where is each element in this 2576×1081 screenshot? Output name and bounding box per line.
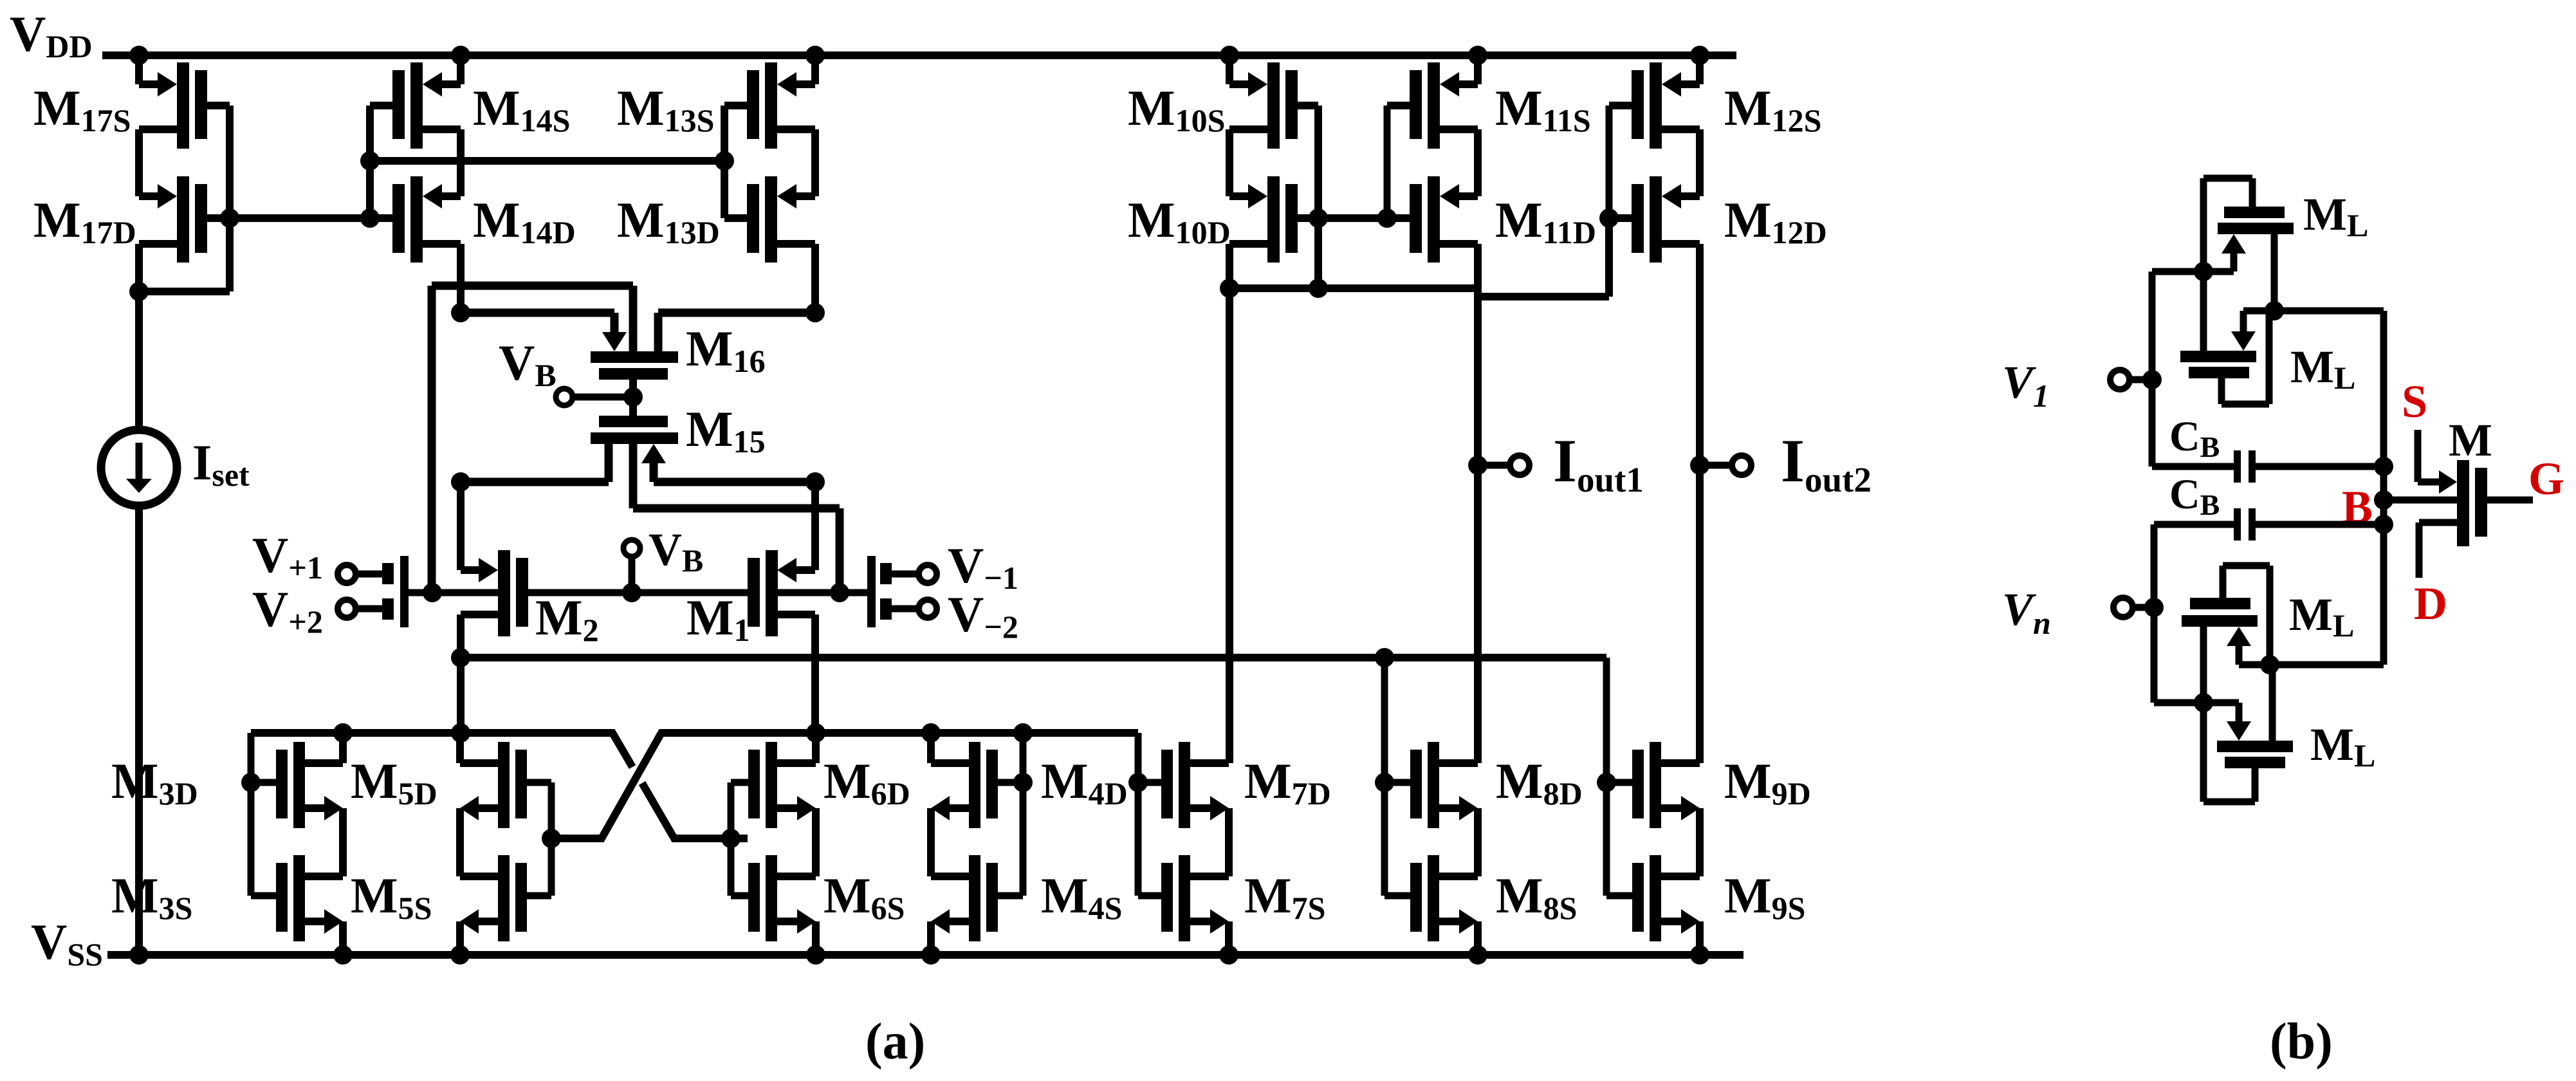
terminal V1: [2110, 370, 2130, 389]
wire M10 gate to drain bias: [1314, 218, 1322, 288]
wire M14 gate column: [366, 106, 374, 218]
wire M9D source to M9S drain: [1696, 808, 1704, 876]
wire M3 gate column: [248, 733, 255, 896]
wire M3D source to M3S drain: [339, 808, 347, 876]
transistor M11S: [1428, 62, 1440, 149]
transistor M14D: [410, 176, 423, 263]
wire ML2 gate loop: [2218, 378, 2225, 404]
terminal V-1: [919, 565, 937, 583]
node CB top B rail: [2374, 457, 2393, 476]
transistor M2: [498, 550, 510, 636]
node M7 VSS: [1219, 945, 1238, 965]
input gate bar M1: [867, 556, 876, 627]
terminal Iout1: [1510, 456, 1529, 475]
node M4 drain on P2: [921, 723, 941, 743]
svg-text:M: M: [2449, 414, 2492, 466]
wire P2 corner to M7 gates: [1135, 733, 1142, 896]
svg-text:G: G: [2528, 453, 2564, 504]
wire to current source: [135, 291, 143, 430]
transistor M13S: [765, 62, 777, 149]
wire bias right to M12 gates: [1478, 293, 1609, 300]
node M2 bulk - M16 branch: [423, 583, 442, 602]
transistor M: [2457, 460, 2469, 546]
wire M10D drain to M7D drain: [1226, 244, 1233, 763]
node M4 gate on P2: [1013, 723, 1033, 743]
transistor M9D and M9S: [1650, 742, 1661, 828]
svg-text:(a): (a): [865, 1013, 925, 1070]
node M5 VSS: [450, 945, 470, 965]
wire M13 gate column: [721, 106, 728, 218]
wire M1 source: [811, 482, 819, 570]
wire B rail: [2380, 311, 2387, 665]
wire M12 gate column: [1606, 106, 1613, 218]
wire M gate: [2487, 497, 2533, 504]
transistor ML1: [2224, 207, 2285, 218]
wire V1 up to ML1: [2149, 272, 2156, 380]
terminal V+1: [338, 565, 356, 583]
wire diagonal lower piece to M6 gate: [642, 783, 748, 838]
wire tail corner to M9 gates: [1603, 658, 1610, 896]
wire D2 to M16 plate: [658, 309, 815, 317]
wire M8D source to M8S drain: [1474, 808, 1482, 876]
node M15 source - M1 source: [805, 472, 825, 492]
wire M7D source to M7S drain: [1225, 808, 1233, 876]
terminal Iout2: [1732, 456, 1751, 475]
transistor M7D and M7S: [1179, 742, 1190, 828]
transistor M6D and M6S: [766, 742, 777, 828]
transistor M10D: [1267, 176, 1280, 263]
transistor ML3: [2190, 598, 2250, 609]
svg-text:D: D: [2414, 578, 2447, 629]
svg-text:S: S: [2402, 376, 2427, 427]
node B bottom: [2260, 655, 2279, 674]
transistor M16: [602, 332, 627, 351]
node Vn: [2144, 598, 2164, 617]
wire M6D drain up: [812, 733, 820, 763]
transistor ML4: [2227, 721, 2251, 741]
wire M5 gate diagonal to P2: [551, 733, 1138, 838]
node VB gate tie: [623, 387, 643, 407]
wire M17 gate column: [226, 106, 234, 218]
wire M7S source to VSS: [1225, 921, 1233, 955]
node V1: [2142, 370, 2162, 389]
wire M drain: [2419, 519, 2457, 526]
node ML1 source: [2194, 262, 2213, 281]
wire M17 diode connection: [226, 218, 234, 291]
wire M14S-M13S gate bias: [370, 157, 724, 165]
wire ML1 gate loop: [2200, 178, 2207, 351]
wire M10-M11 gate bias: [1318, 214, 1410, 222]
node M12 gate: [1599, 208, 1619, 228]
wire M17-M14 gate bias: [230, 214, 370, 222]
wire M8 gate column: [1381, 658, 1388, 896]
VDD rail: [102, 51, 1736, 59]
wire CB top right: [2256, 463, 2384, 470]
transistor M5D and M5S: [498, 742, 510, 828]
capacitor CB top: [2234, 450, 2241, 483]
node VDD-M14 junction: [451, 46, 470, 65]
wire M2 bulk line: [409, 589, 498, 596]
wire M3S source to VSS: [339, 921, 347, 955]
transistor M11D: [1428, 176, 1440, 263]
transistor M13D: [765, 176, 777, 263]
node VSS left: [129, 945, 149, 965]
node M1 bulk: [830, 583, 849, 602]
node M9 gate: [1597, 773, 1616, 792]
wire CB bottom left: [2151, 524, 2158, 607]
wire M11 gate column: [1384, 106, 1391, 218]
transistor M4D and M4S: [969, 742, 980, 828]
transistor M10S: [1267, 62, 1280, 149]
wire M8S source to VSS: [1474, 921, 1482, 955]
wire M2 source: [457, 482, 465, 570]
input plate V-1: [880, 563, 892, 584]
wire M6 gate column: [728, 782, 735, 896]
node M2 drain: [451, 648, 470, 667]
wire ML4 channel leg: [2269, 665, 2276, 741]
wire M4 gate column: [1020, 733, 1027, 896]
node Iout2: [1690, 456, 1709, 475]
wire Vn down: [2151, 607, 2158, 703]
wire B rail top: [2274, 308, 2384, 315]
wire M16-M15 gate tie: [629, 380, 637, 416]
wire ML3 channel left leg: [2200, 627, 2207, 703]
node M3 drain on P1: [333, 723, 353, 743]
wire M6D source to M6S drain: [812, 808, 820, 876]
wire M4S source to VSS: [927, 921, 935, 955]
transistor M15: [599, 416, 668, 427]
node Vn ML3: [2194, 693, 2213, 712]
node M9 VSS: [1690, 945, 1709, 965]
node M14S gate: [360, 151, 380, 171]
transistor M12S: [1650, 62, 1662, 149]
node M6 VSS: [806, 945, 825, 965]
wire CB top left: [2149, 380, 2156, 467]
transistor M8D and M8S: [1428, 742, 1439, 828]
node M14D drain D1: [451, 303, 470, 322]
input gate bar M2: [400, 556, 409, 627]
node M8 VSS: [1468, 945, 1487, 965]
wire M15 mid leg to M1 bulk: [629, 444, 638, 508]
node VDD-M17 junction: [129, 46, 149, 65]
wire M source: [2415, 430, 2422, 482]
node VDD-M13 junction: [805, 46, 825, 65]
wire B rail bottom corner: [2270, 661, 2384, 669]
wire W1 bulk-left branch: [432, 282, 633, 290]
node B top: [2265, 301, 2284, 320]
node VB middle: [622, 583, 641, 602]
terminal VB upper: [556, 389, 573, 405]
node M15 drain - M2 source: [451, 472, 470, 492]
wire M5S source to VSS: [456, 921, 464, 955]
input plate V+2: [382, 598, 394, 620]
transistor M14S: [410, 62, 423, 149]
node M8 gate tail: [1375, 648, 1394, 667]
node M17 gate-drain tie: [220, 208, 239, 228]
node M4 gate stub: [1013, 773, 1033, 792]
wire CB bottom right: [2256, 521, 2384, 528]
node B to M: [2374, 490, 2393, 510]
wire M3D drain up: [339, 733, 347, 763]
node M4 VSS: [921, 945, 941, 965]
node M10 drain bias: [1220, 279, 1239, 298]
node M8 gate: [1375, 773, 1394, 792]
node M11 gate: [1377, 208, 1397, 228]
transistor M17S: [177, 62, 189, 149]
wire P1 with diagonal upper piece: [251, 733, 632, 767]
current source Iset: [101, 430, 177, 506]
wire ML2 source arrow feed: [2243, 308, 2274, 315]
node M5 gate: [542, 829, 561, 848]
wire M10 gate column: [1314, 106, 1322, 218]
wire B to M bulk: [2384, 497, 2457, 504]
wire M2 drain down to P1: [457, 658, 465, 733]
node M6 gate: [721, 829, 741, 848]
VSS rail: [107, 951, 1743, 959]
wire Iset to VSS: [135, 506, 143, 955]
node M7 gate: [1128, 773, 1148, 792]
transistor ML2: [2231, 331, 2256, 351]
terminal VB middle: [623, 540, 640, 557]
node M13D drain D2: [805, 303, 825, 322]
wire M5D source to M5S drain: [456, 808, 464, 876]
wire M4D drain up: [927, 733, 935, 763]
wire D1 to M16 source arrow: [461, 309, 614, 317]
node VDD-M11 junction: [1468, 46, 1487, 65]
node Iout1: [1468, 456, 1487, 475]
node M10 gate: [1309, 208, 1328, 228]
input plate V-2: [880, 598, 892, 620]
wire M4D source to M4S drain: [927, 808, 935, 876]
node CB bottom B rail: [2374, 515, 2393, 534]
wire ML4 gate loop: [2252, 768, 2259, 802]
node M13 gate: [715, 151, 734, 171]
wire bias left: [1229, 284, 1478, 292]
input plate V+1: [382, 563, 394, 584]
wire M15 drain: [605, 444, 613, 482]
wire ML1 drain leg: [2271, 234, 2278, 311]
wire ML4 source arrow feed: [2203, 699, 2239, 707]
node M3 VSS: [333, 945, 353, 965]
terminal Vn: [2113, 598, 2133, 617]
wire M5D drain up: [456, 733, 464, 763]
terminal V-2: [919, 600, 937, 618]
node M17 drain / Iset: [129, 282, 149, 301]
node M10 bias: [1309, 279, 1328, 298]
wire ML3 gate loop: [2220, 566, 2227, 598]
capacitor CB bottom: [2234, 508, 2241, 540]
wire M6S source to VSS: [812, 921, 820, 955]
node VDD-M12 junction: [1690, 46, 1709, 65]
wire M2 drain tail: [461, 654, 1606, 661]
node P1 M5 drain M2 drain: [451, 723, 470, 743]
transistor M1: [766, 550, 778, 636]
wire M1 bulk line: [777, 589, 867, 596]
terminal V+2: [338, 600, 356, 618]
wire M9S source to VSS: [1696, 921, 1704, 955]
transistor M12D: [1650, 176, 1662, 263]
transistor M17D: [177, 176, 189, 263]
svg-text:(b): (b): [2270, 1013, 2333, 1070]
node M14D gate: [360, 208, 380, 228]
wire M5 gate column: [548, 782, 555, 896]
node M3 gate: [241, 773, 261, 792]
node P2 M6 drain M1 drain: [806, 723, 825, 743]
transistor M3D and M3S: [293, 742, 305, 828]
node VDD-M10 junction: [1220, 46, 1239, 65]
wire M15 source to M1 source: [650, 463, 658, 482]
